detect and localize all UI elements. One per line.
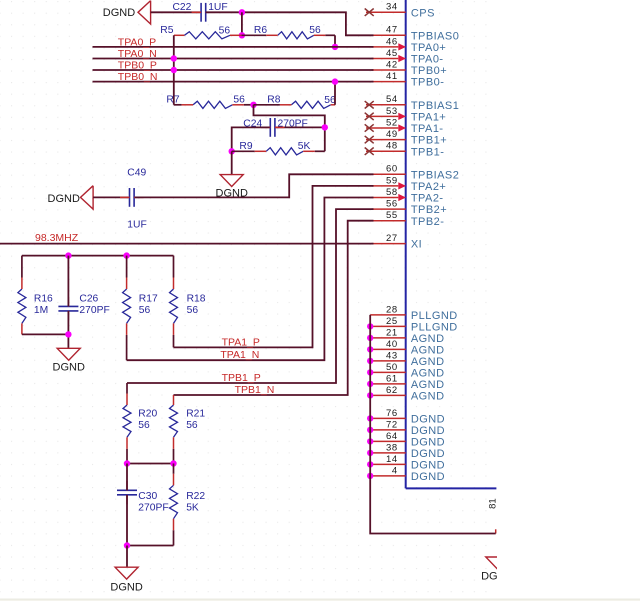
pin 46 TPA0+ [372,36,447,54]
wire R7R8-C24right [254,105,325,152]
wire TPA0_N [93,58,374,60]
label TPA1_N [220,349,259,361]
svg-text:TPB1-: TPB1- [411,146,444,158]
label C30 [138,491,157,502]
label TPA1_P [222,337,260,349]
junction pin 21 [367,335,373,341]
pin 76 DGND [370,408,445,426]
label DGND right [481,571,513,583]
label R6 [254,25,267,36]
svg-text:48: 48 [386,141,398,152]
svg-text:AGND: AGND [411,379,445,391]
label R22 [186,491,205,502]
label TPA0_N [118,48,157,60]
svg-text:TPBIAS0: TPBIAS0 [411,30,459,42]
wire C24 right [276,126,325,128]
pin 38 DGND [370,442,445,460]
label R5 [160,25,173,36]
svg-text:59: 59 [386,175,398,186]
svg-text:34: 34 [386,2,398,13]
pin 53 TPA1+ [365,106,447,124]
capacitor C26 [58,297,78,321]
wire XI 98.3MHZ [0,243,374,245]
capacitor C49 [120,188,144,207]
svg-text:61: 61 [386,373,398,384]
wire R8-TPB0_N [334,82,336,105]
junction R8-TPB0_N [332,78,338,84]
wire C30 bottom lead [126,495,128,546]
resistor R17 [123,256,131,361]
wire R5-R7 vertical [173,35,175,105]
svg-text:270PF: 270PF [278,118,308,129]
svg-text:49: 49 [386,129,398,140]
ground DGND C30 [115,567,138,579]
label DGND top [103,7,135,19]
resistor R5 [174,32,242,39]
junction C30 bottom [124,542,130,548]
label DGND C24 [216,187,248,199]
wire DGND-C49 [93,196,129,198]
label 270PF C24 [278,118,308,129]
wire C22 junction drop [241,12,243,35]
junction C26 top [65,252,71,258]
svg-text:DGND: DGND [411,425,445,437]
junction pin 25 [367,323,373,329]
resistor R18 [170,256,178,348]
pin 14 DGND [370,454,445,472]
svg-text:TPBIAS1: TPBIAS1 [411,100,459,112]
svg-text:41: 41 [386,71,398,82]
label 56 R5 [219,25,231,36]
capacitor C30 [117,481,137,505]
svg-text:64: 64 [386,431,398,442]
junction pin 64 [367,438,373,444]
junction TPB0_P tap [171,67,177,73]
svg-text:56: 56 [187,305,199,316]
svg-text:TPB0_N: TPB0_N [118,71,158,83]
junction C30 top [124,460,130,466]
svg-text:42: 42 [386,59,398,70]
capacitor C24 [261,118,285,137]
wire R9-gnd [231,151,233,174]
IC U1 bottom edge [406,487,497,489]
wire C30 top lead [126,464,128,491]
ground DGND top [138,1,151,24]
label 98.3MHZ [35,232,79,244]
svg-text:AGND: AGND [411,356,445,368]
junction R22 top [170,460,176,466]
svg-text:TPA0-: TPA0- [411,54,444,66]
svg-text:PLLGND: PLLGND [411,310,458,322]
pin 49 TPB1+ [365,129,447,147]
junction pin 40 [367,346,373,352]
resistor R9 [232,148,325,155]
svg-text:28: 28 [386,304,398,315]
pin 34 CPS [365,2,435,20]
pin 60 TPBIAS2 [372,164,460,182]
wire TPB0_N [93,81,374,83]
svg-text:56: 56 [138,420,150,431]
ground DGND C49 [81,186,94,209]
junction R9 left [229,148,235,154]
svg-text:TPA1_P: TPA1_P [222,337,260,349]
wire TPA1_N [127,198,374,361]
svg-text:38: 38 [386,442,398,453]
svg-text:XI: XI [411,239,422,251]
svg-text:CPS: CPS [411,7,435,19]
svg-text:58: 58 [386,187,398,198]
label 1M R16 [34,305,48,316]
svg-text:46: 46 [386,36,398,47]
junction pin 43 [367,358,373,364]
svg-text:R22: R22 [186,491,205,502]
svg-text:TPA0+: TPA0+ [411,42,446,54]
svg-text:TPB1_N: TPB1_N [235,384,275,396]
junction R6-TPA0_P [332,44,338,50]
label C26 [79,293,98,304]
svg-text:AGND: AGND [411,333,445,345]
svg-text:4: 4 [392,465,398,476]
pin 45 TPA0- [372,48,444,66]
pin 81 [488,498,499,533]
wire DGND bus [370,315,496,534]
svg-text:52: 52 [386,117,398,128]
svg-text:R16: R16 [34,293,53,304]
svg-text:AGND: AGND [411,368,445,380]
wire C24 left [232,127,270,151]
label 1UF C22 [208,2,227,13]
svg-text:C49: C49 [127,167,146,178]
resistor R8 [254,101,336,108]
wire TPB1_P [127,209,374,383]
svg-text:21: 21 [386,327,398,338]
wire R20-R21 [127,463,174,465]
svg-text:27: 27 [386,233,398,244]
junction C22 out [239,9,245,15]
wire R6-TPA0_P [334,35,336,47]
junction pin 50 [367,369,373,375]
svg-text:DGND: DGND [103,7,135,19]
wire TPB1_N [174,221,374,395]
svg-text:1M: 1M [34,305,48,316]
svg-text:R17: R17 [139,293,158,304]
ground DGND C26 [57,348,80,360]
junction pin 4 [367,473,373,479]
svg-text:40: 40 [386,339,398,350]
label C24 [243,118,262,129]
label R21 [186,408,205,419]
label 56 R7 [233,94,245,105]
junction C26 bottom [65,331,71,337]
label R7 [166,94,179,105]
svg-text:TPA1-: TPA1- [411,123,444,135]
pin 28 PLLGND [370,304,457,322]
svg-text:TPA0_N: TPA0_N [118,48,157,60]
svg-text:5K: 5K [186,502,199,513]
pin 27 XI [372,233,423,251]
label DGND C26 [53,362,85,374]
pin 25 PLLGND [370,316,457,334]
svg-text:270PF: 270PF [138,502,168,513]
wire C26 top lead [67,256,69,307]
svg-text:54: 54 [386,94,398,105]
svg-text:AGND: AGND [411,345,445,357]
pin 59 TPA2+ [372,175,447,193]
junction R17 top [123,252,129,258]
label 1UF C49 [127,219,146,230]
svg-text:56: 56 [186,420,198,431]
svg-text:PLLGND: PLLGND [411,322,458,334]
junction pin 38 [367,450,373,456]
label TPA0_P [118,36,156,48]
pin 55 TPB2- [372,210,445,228]
ground DGND right [486,557,509,569]
svg-text:TPB0-: TPB0- [411,77,444,89]
label TPB1_P [222,372,261,384]
label 5K R9 [298,141,311,152]
wire C26 bottom lead [67,311,69,348]
label R20 [138,408,157,419]
resistor R6 [242,32,335,39]
svg-text:TPA0_P: TPA0_P [118,36,156,48]
svg-text:TPB2+: TPB2+ [411,204,447,216]
svg-text:270PF: 270PF [79,305,109,316]
label 270PF C26 [79,305,109,316]
pin 40 AGND [370,339,444,357]
svg-text:TPB1_P: TPB1_P [222,372,261,384]
svg-text:C26: C26 [79,293,98,304]
label C49 [127,167,146,178]
svg-text:DGND: DGND [411,471,445,483]
svg-text:TPA2-: TPA2- [411,193,444,205]
svg-text:56: 56 [139,305,151,316]
svg-text:TPA2+: TPA2+ [411,181,446,193]
pin 4 DGND [370,465,445,483]
pin 50 AGND [370,362,444,380]
pin 43 AGND [370,350,444,368]
wire TPB0_P [93,69,374,71]
svg-text:55: 55 [386,210,398,221]
resistor R21 [170,395,178,464]
svg-text:47: 47 [386,25,398,36]
svg-text:56: 56 [233,94,245,105]
label 56 R8 [324,95,336,106]
resistor R20 [123,383,131,464]
label TPB0_N [118,71,158,83]
svg-text:R7: R7 [166,94,179,105]
svg-text:1UF: 1UF [127,219,146,230]
label 56 R17 [139,305,151,316]
resistor R16 [18,256,26,335]
svg-text:TPB0+: TPB0+ [411,65,447,77]
wire DGND-C22 [151,11,201,13]
svg-text:DGND: DGND [53,362,85,374]
svg-text:81: 81 [488,498,499,509]
label R18 [187,293,206,304]
svg-text:DGND: DGND [110,581,142,593]
junction pin 14 [367,461,373,467]
svg-text:56: 56 [309,25,321,36]
wire R16 bottom [22,333,69,335]
svg-text:R21: R21 [186,408,205,419]
label DGND C30 [110,581,142,593]
pin 72 DGND [370,419,445,437]
junction pin 76 [367,415,373,421]
pin 47 TPBIAS0 [372,25,460,43]
label 270PF C30 [138,502,168,513]
junction pin 61 [367,381,373,387]
svg-text:TPB1+: TPB1+ [411,135,447,147]
pin 52 TPA1- [365,117,444,135]
junction R7-R8 [250,102,256,108]
label TPB1_N [235,384,275,396]
svg-text:C22: C22 [173,2,192,13]
label R9 [239,141,252,152]
svg-text:DGND: DGND [48,193,80,205]
pin 61 AGND [370,373,444,391]
svg-text:DGND: DGND [411,414,445,426]
svg-text:AGND: AGND [411,391,445,403]
svg-text:TPB0_P: TPB0_P [118,60,157,72]
svg-text:98.3MHZ: 98.3MHZ [35,232,79,244]
resistor R7 [174,101,254,108]
svg-text:R18: R18 [187,293,206,304]
svg-text:TPA1+: TPA1+ [411,112,446,124]
svg-text:R9: R9 [239,141,252,152]
label C22 [173,2,192,13]
svg-text:DGND: DGND [411,460,445,472]
pin 56 TPB2+ [372,199,448,217]
junction R5-R6 [239,32,245,38]
svg-text:43: 43 [386,350,398,361]
junction C24 right [322,124,328,130]
svg-text:R5: R5 [160,25,173,36]
junction TPA0_N tap [171,55,177,61]
label TPB0_P [118,60,157,72]
svg-text:5K: 5K [298,141,311,152]
wire TPA0_P [93,46,374,48]
ground DGND C24 [220,175,243,187]
pin 58 TPA2- [372,187,444,205]
label R16 [34,293,53,304]
svg-text:56: 56 [219,25,231,36]
svg-text:50: 50 [386,362,398,373]
svg-text:45: 45 [386,48,398,59]
wire RC top [22,255,174,257]
svg-text:DGND: DGND [411,448,445,460]
svg-text:TPBIAS2: TPBIAS2 [411,169,459,181]
svg-text:R6: R6 [254,25,267,36]
label 56 R18 [187,305,199,316]
label 56 R21 [186,420,198,431]
label 56 R20 [138,420,150,431]
label R17 [139,293,158,304]
wire TPA1_P [174,186,374,348]
pin 64 DGND [370,431,445,449]
pin 62 AGND [370,385,444,403]
svg-text:76: 76 [386,408,398,419]
svg-text:C30: C30 [138,491,157,502]
pin 41 TPB0- [372,71,445,89]
svg-text:14: 14 [386,454,398,465]
IC U1 left edge [405,0,407,488]
pin 42 TPB0+ [372,59,448,77]
svg-text:25: 25 [386,316,398,327]
wire C49-pin60 [135,174,374,197]
label DGND C49 [48,193,80,205]
resistor R22 [170,464,178,546]
svg-text:72: 72 [386,419,398,430]
svg-text:60: 60 [386,164,398,175]
label 5K R22 [186,502,199,513]
label 56 R6 [309,25,321,36]
svg-text:TPA1_N: TPA1_N [220,349,259,361]
svg-text:53: 53 [386,106,398,117]
pin 54 TPBIAS1 [365,94,460,112]
svg-text:62: 62 [386,385,398,396]
pin 48 TPB1- [365,141,445,159]
svg-text:TPB2-: TPB2- [411,216,444,228]
svg-text:DGND: DGND [411,437,445,449]
svg-text:R20: R20 [138,408,157,419]
wire R22 bottom [127,545,174,547]
label R8 [267,94,280,105]
junction pin 62 [367,392,373,398]
svg-text:R8: R8 [267,94,280,105]
wire C30-gnd [126,546,128,568]
pin 21 AGND [370,327,444,345]
svg-text:56: 56 [386,199,398,210]
junction pin 72 [367,427,373,433]
capacitor C22 [192,3,216,22]
wire C22-pin47 [206,12,374,35]
